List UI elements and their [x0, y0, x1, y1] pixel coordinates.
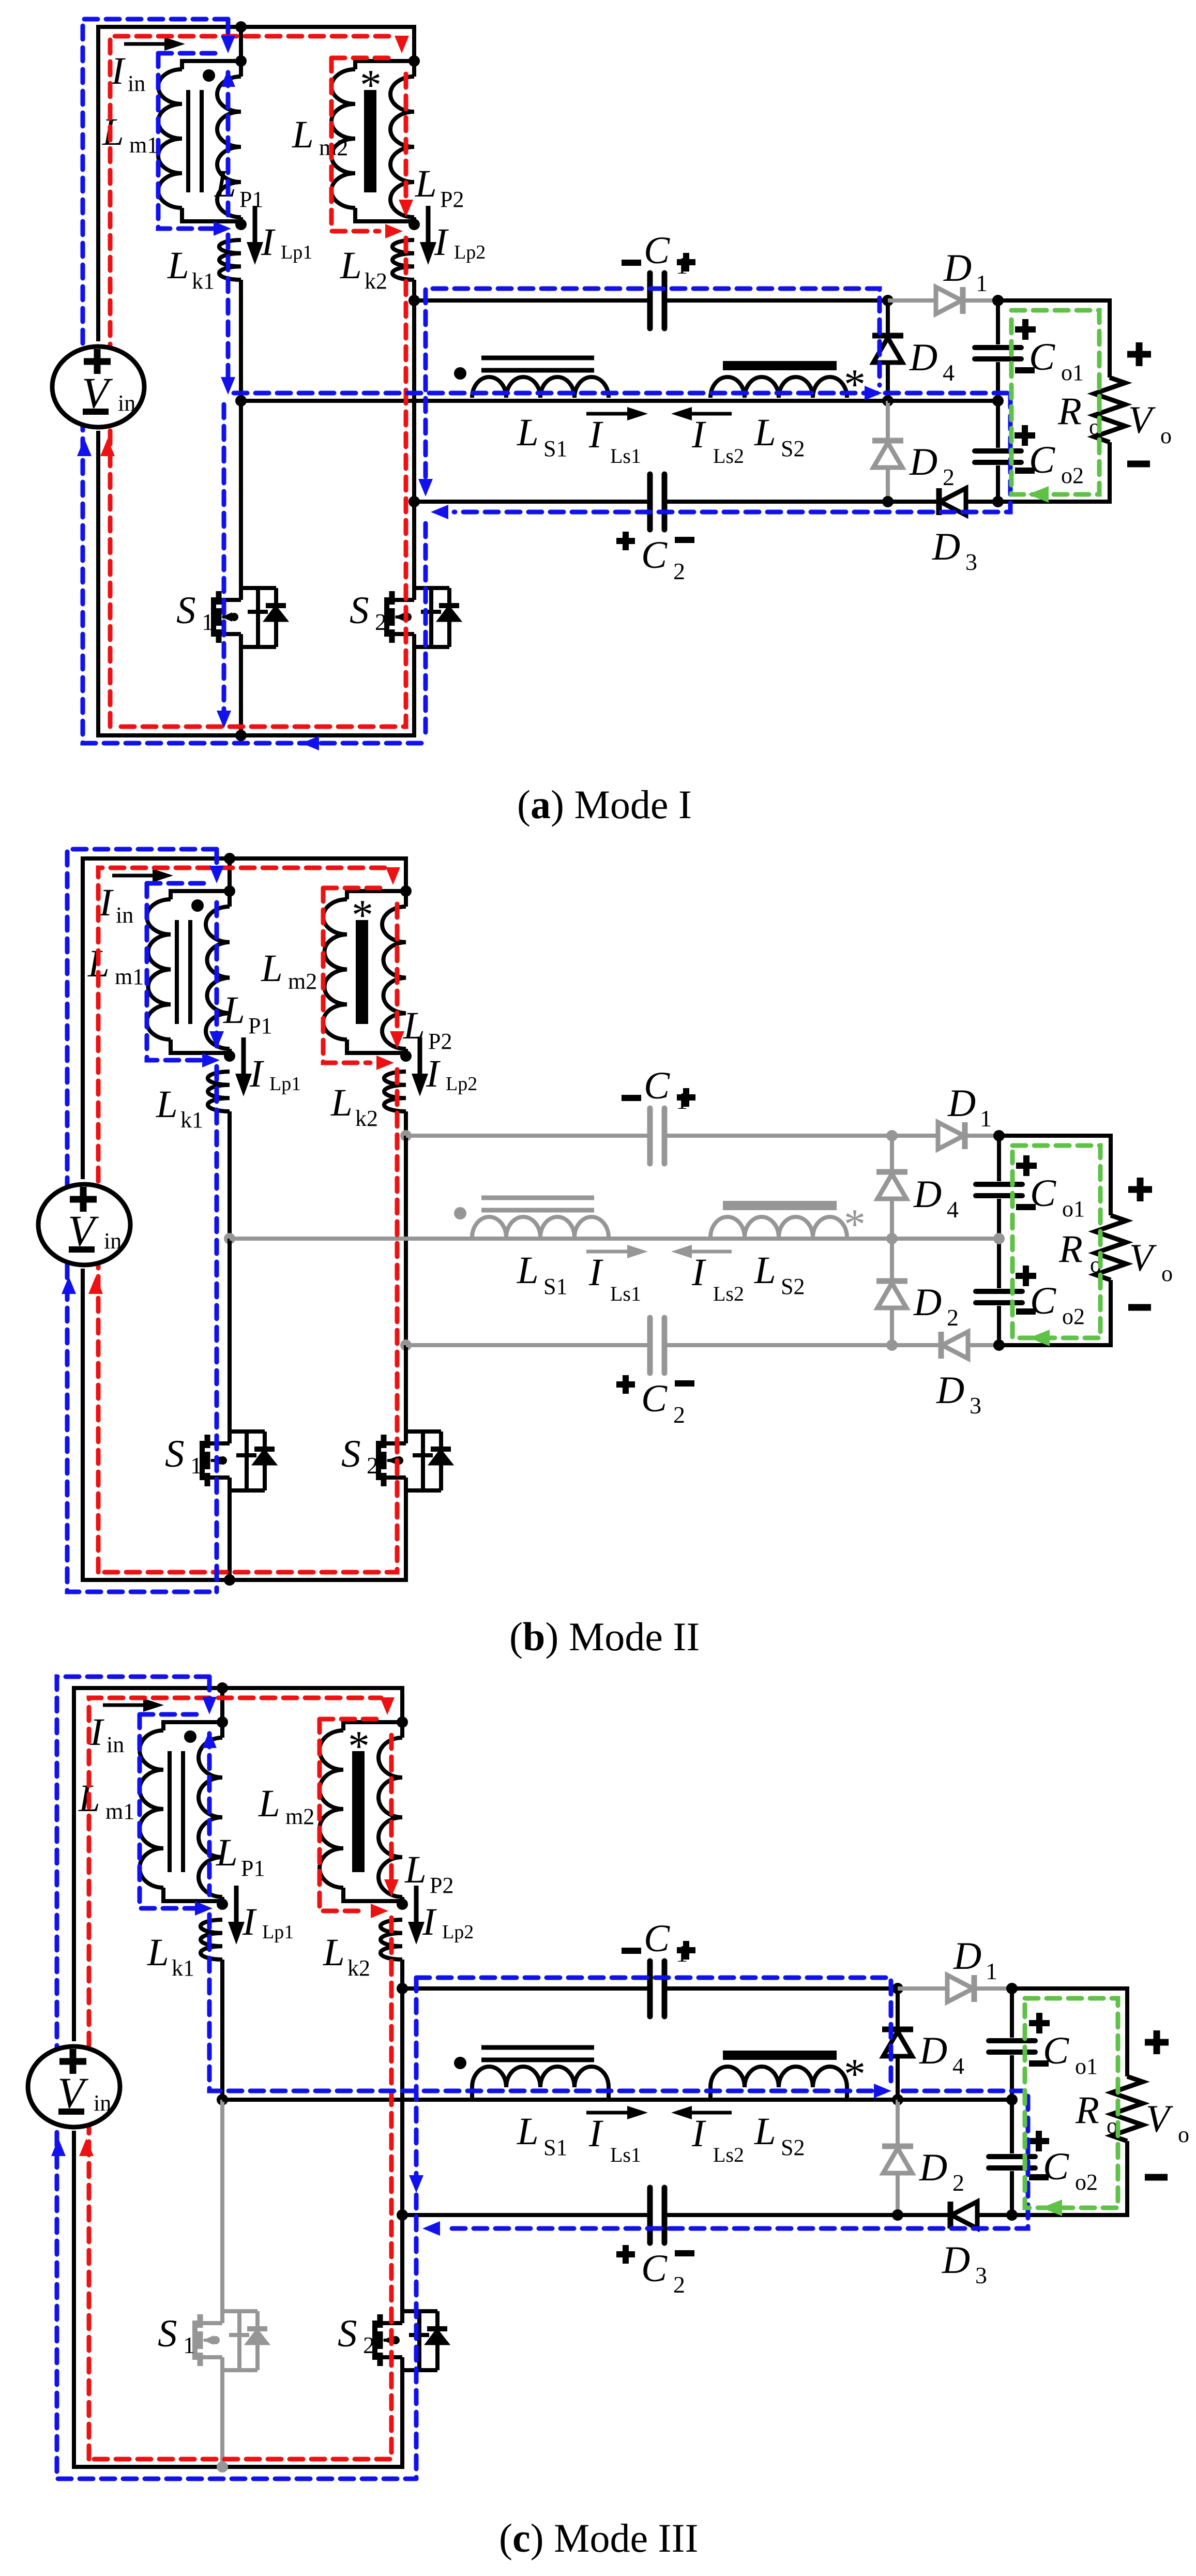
- blue arrow down into T1 node (c): [202, 1697, 217, 1714]
- wire D2 branch (c): [896, 2100, 900, 2215]
- diode D3 (b): [942, 1332, 968, 1359]
- label output plus (b): [1128, 1186, 1152, 1193]
- svg-text:I: I: [426, 1052, 441, 1095]
- diode D4 (a): [872, 333, 903, 339]
- green dashed output loop (b): [1012, 1146, 1100, 1338]
- capacitor C2 (c): [647, 2188, 653, 2243]
- green dashed output loop (c): [1025, 1998, 1118, 2208]
- wire D4 branch (a): [886, 300, 890, 401]
- arrow ILp1 (b): [241, 1037, 246, 1088]
- arrow ILs1 (a): [586, 412, 641, 416]
- wire Vin to bottom rail (b): [81, 1269, 85, 1580]
- inductor LS1 core lines (c): [481, 2045, 594, 2050]
- svg-text:L: L: [340, 244, 362, 287]
- red dashed loop outer (a): [110, 36, 396, 727]
- svg-text:I: I: [691, 1251, 706, 1294]
- svg-text:P2: P2: [428, 1029, 452, 1054]
- svg-text:Lp2: Lp2: [442, 1921, 474, 1943]
- svg-text:Ls2: Ls2: [713, 2143, 744, 2166]
- wire C1 rail (a): [414, 298, 650, 303]
- node T1 bottom (b): [224, 1050, 235, 1062]
- svg-text:o: o: [1160, 423, 1172, 448]
- svg-text:L: L: [214, 162, 236, 205]
- svg-text:1: 1: [190, 1452, 202, 1479]
- svg-text:*: *: [352, 891, 373, 939]
- blue arrow down into T1 node (b): [209, 866, 224, 883]
- arrow ILs1 (b): [586, 1250, 641, 1254]
- wire C2-rail node to S2 drain (a): [412, 502, 416, 588]
- node D2 bottom (b): [886, 1339, 898, 1351]
- inductor LS1 (b): [472, 1217, 609, 1238]
- wire D2 branch (a): [886, 401, 890, 502]
- label output minus (a): [1127, 461, 1150, 468]
- inductor LS1 polarity dot (c): [454, 2057, 466, 2069]
- node D4 mid-rail (b): [886, 1233, 898, 1244]
- svg-text:D: D: [943, 247, 972, 290]
- svg-text:o1: o1: [1062, 1196, 1085, 1222]
- svg-text:o2: o2: [1062, 1304, 1085, 1329]
- svg-text:S: S: [165, 1433, 185, 1475]
- svg-text:S1: S1: [543, 1274, 567, 1299]
- red dashed through LP2 (c): [389, 1735, 394, 1889]
- svg-text:I: I: [261, 221, 276, 264]
- svg-text:P1: P1: [239, 187, 263, 212]
- green arrow left (a): [1028, 486, 1049, 503]
- wire mid-rail node to S1 drain (b): [228, 1239, 232, 1432]
- node T1 top (b): [224, 885, 235, 897]
- red arrow down top (c): [380, 1697, 395, 1715]
- wire S1 source to bottom rail (a): [239, 647, 243, 735]
- transformer T2 primary winding Lm2 (c): [343, 1722, 402, 1730]
- svg-text:o: o: [1161, 1261, 1173, 1286]
- blue dashed through LP1 (a): [226, 72, 231, 215]
- wire C2-rail node to S2 drain (b): [404, 1345, 408, 1432]
- svg-text:2: 2: [673, 2271, 685, 2298]
- wire output loop with load (a): [998, 300, 1110, 378]
- node output top (b): [993, 1130, 1005, 1141]
- node top rail / T1 (a): [235, 21, 247, 33]
- svg-text:C: C: [1029, 439, 1055, 481]
- svg-text:S1: S1: [543, 436, 567, 461]
- red arrow down top (b): [386, 867, 400, 885]
- blue arrow left under C2 rail (a): [431, 505, 448, 519]
- blue arrow down into T1 node (a): [221, 36, 235, 53]
- svg-text:4: 4: [947, 1196, 959, 1223]
- diode D3 (a): [940, 488, 966, 515]
- svg-text:L: L: [216, 1831, 238, 1874]
- wire C1-rail node to C2-rail node (b): [404, 1136, 408, 1345]
- blue dashed mid rail right part (c): [446, 2091, 1028, 2228]
- svg-text:L: L: [754, 2110, 776, 2153]
- inductor Lk1 (c): [201, 1920, 222, 1960]
- svg-text:S: S: [341, 1433, 361, 1475]
- svg-text:L: L: [517, 1249, 539, 1292]
- wire C2 rail (c): [402, 2213, 650, 2217]
- svg-text:I: I: [99, 881, 114, 924]
- node output top (a): [992, 295, 1004, 306]
- node output top (c): [1006, 1983, 1018, 1994]
- capacitor Co1 (b): [976, 1182, 1022, 1187]
- green arrow left (b): [1029, 1330, 1050, 1346]
- blue dashed Lk1 branch to mid rail corner (c): [209, 1915, 885, 2091]
- svg-text:I: I: [249, 1052, 264, 1095]
- wire C1-rail node to C2-rail node (c): [400, 1989, 404, 2215]
- transformer T2 core bar (c): [352, 1751, 365, 1872]
- svg-text:1: 1: [202, 609, 214, 635]
- inductor LS1 polarity dot (a): [454, 367, 466, 380]
- wire C1 rail (b): [406, 1134, 650, 1138]
- svg-text:m2: m2: [288, 969, 317, 994]
- arrow ILs2 (a): [671, 407, 692, 420]
- svg-text:I: I: [242, 1901, 257, 1944]
- diode D2 (b): [876, 1278, 907, 1284]
- svg-text:I: I: [588, 413, 603, 456]
- transistor S2 (c): [372, 2321, 377, 2360]
- arrow ILp1 (a): [253, 206, 258, 257]
- node output mid (c): [1006, 2094, 1018, 2105]
- svg-text:D: D: [919, 2029, 947, 2072]
- wire bottom rail (b): [81, 1490, 406, 1580]
- transistor S1 (b): [200, 1441, 205, 1480]
- blue dashed top leg (a): [226, 19, 231, 39]
- svg-text:*: *: [360, 61, 382, 109]
- svg-text:Ls1: Ls1: [610, 444, 641, 468]
- wire input top rail (b): [83, 858, 406, 1179]
- label output plus (c): [1145, 2039, 1169, 2046]
- red arrow down top (a): [395, 36, 409, 53]
- svg-text:R: R: [1058, 1228, 1083, 1271]
- svg-text:P2: P2: [430, 1873, 453, 1898]
- svg-text:Ls2: Ls2: [713, 444, 744, 468]
- svg-text:D: D: [932, 525, 960, 568]
- inductor LS2 core bar (c): [723, 2051, 837, 2060]
- wire input top rail (a): [98, 27, 414, 341]
- transformer T1 polarity dot (a): [203, 69, 215, 82]
- svg-text:I: I: [434, 221, 449, 264]
- label C2 (c): [616, 2251, 635, 2257]
- blue dashed through LP1 (b): [215, 902, 219, 1047]
- node D4 mid-rail (c): [892, 2094, 903, 2105]
- wire Lk2 down to C1 rail (b): [404, 1111, 408, 1136]
- diode D2 (a): [872, 438, 903, 444]
- blue dashed output return (a): [454, 394, 1010, 512]
- wire Vin to bottom rail (c): [72, 2131, 76, 2467]
- svg-text:in: in: [94, 2090, 111, 2116]
- blue arrow up LP1 (a): [221, 69, 235, 87]
- svg-text:L: L: [261, 947, 283, 990]
- wire D3 segment (c): [898, 2213, 1012, 2217]
- node T1 top (c): [217, 1716, 228, 1728]
- node T2 top (b): [400, 885, 412, 897]
- wire output loop with load (c): [1012, 1989, 1127, 2076]
- wire S1 source to bottom rail (b): [228, 1490, 232, 1580]
- wire mid rail to output mid node (a): [888, 399, 998, 403]
- wire D1 branch (c): [898, 1986, 1012, 1991]
- blue dashed through LP1 (c): [207, 1734, 212, 1895]
- blue arrow left bottom (a): [301, 736, 319, 750]
- svg-text:I: I: [89, 1711, 104, 1754]
- wire mid rail to output mid node (b): [892, 1237, 999, 1241]
- wire C2 rail (b): [406, 1343, 650, 1347]
- svg-text:o1: o1: [1061, 360, 1084, 385]
- resistor Ro (b): [1095, 1215, 1126, 1280]
- node C1 rail (c): [397, 1983, 408, 1994]
- node bottom rail / S1 (b): [224, 1574, 235, 1586]
- voltage source Vin (b): [38, 1184, 130, 1265]
- capacitor C1 (a): [647, 273, 653, 328]
- svg-text:in: in: [128, 71, 145, 96]
- node C2 rail (b): [400, 1339, 412, 1351]
- capacitor Co1 (c): [989, 2038, 1035, 2043]
- node output bottom (a): [992, 496, 1004, 507]
- arrow ILp2 (a): [426, 206, 431, 257]
- transformer T2 core bar (b): [356, 920, 368, 1024]
- svg-text:Lp1: Lp1: [269, 1073, 301, 1095]
- transistor S1 (a): [211, 597, 216, 637]
- capacitor Co2 (a): [975, 448, 1021, 454]
- svg-text:L: L: [323, 1931, 345, 1974]
- red arrow right T2 bottom (c): [371, 1904, 388, 1918]
- transistor S2 (b): [376, 1441, 381, 1480]
- blue dashed top leg (b): [215, 849, 219, 869]
- capacitor C1 (c): [647, 1961, 653, 2016]
- svg-text:L: L: [415, 162, 437, 205]
- node T1 bottom (a): [235, 219, 247, 230]
- wire C1 rail (c): [402, 1986, 650, 1991]
- svg-text:Lp1: Lp1: [281, 242, 312, 263]
- svg-text:4: 4: [943, 359, 955, 386]
- svg-text:o1: o1: [1075, 2054, 1098, 2079]
- svg-text:C: C: [644, 229, 670, 272]
- blue dashed T1 rect (a): [158, 53, 222, 229]
- label C1 (b): [622, 1095, 641, 1101]
- inductor LS1 (a): [472, 377, 609, 398]
- wire mid rail with LS1 LS2 (a): [241, 399, 888, 403]
- svg-text:2: 2: [375, 609, 387, 635]
- svg-text:1: 1: [986, 1958, 997, 1984]
- blue arrow down S1 column (a): [217, 711, 231, 728]
- transformer T2 secondary winding Lp2 (a): [412, 61, 416, 77]
- diode D4 (b): [876, 1169, 907, 1175]
- transformer T1 secondary winding Lp1 (b): [228, 891, 232, 907]
- svg-text:2: 2: [363, 2332, 375, 2358]
- svg-text:S2: S2: [781, 436, 805, 461]
- svg-text:L: L: [517, 2110, 539, 2153]
- red dashed through LP2 (a): [404, 74, 408, 209]
- transformer T2 secondary winding Lp2 (c): [400, 1722, 404, 1738]
- transformer T1 polarity dot (b): [191, 899, 204, 912]
- svg-text:(c) Mode III: (c) Mode III: [499, 2515, 698, 2560]
- svg-text:2: 2: [943, 464, 955, 490]
- wire Lk1 to mid-rail node (a): [239, 280, 243, 401]
- blue arrow right mid rail (c): [874, 2084, 891, 2098]
- red arrow up near Vin (b): [88, 1276, 103, 1294]
- node T2 bottom (a): [408, 219, 420, 230]
- voltage source Vin (a): [52, 347, 144, 427]
- node C1 rail (b): [400, 1130, 412, 1141]
- svg-text:D: D: [919, 2146, 947, 2189]
- blue dashed mid rail (a): [234, 391, 1007, 396]
- wire bottom rail (c): [72, 2370, 402, 2467]
- blue dashed C1 loop (c): [416, 1978, 891, 2084]
- node C2 rail (c): [397, 2209, 408, 2221]
- red dashed loop T2 rect (c): [320, 1719, 365, 1911]
- wire T1 branch from top rail (c): [220, 1688, 224, 1722]
- svg-text:P1: P1: [248, 1013, 272, 1038]
- blue dashed C1 loop (a): [426, 289, 880, 477]
- svg-text:I: I: [691, 413, 706, 456]
- red dashed S2 column (c): [94, 1918, 391, 2459]
- svg-text:Ls1: Ls1: [610, 2143, 641, 2166]
- transformer T2 primary winding Lm2 (a): [355, 61, 414, 69]
- svg-text:L: L: [292, 113, 314, 156]
- node output bottom (b): [993, 1339, 1005, 1351]
- blue arrow right T1 bottom (c): [195, 1901, 213, 1916]
- svg-text:Ls2: Ls2: [713, 1282, 744, 1305]
- svg-text:3: 3: [970, 1392, 981, 1419]
- node T1 bottom (c): [217, 1899, 228, 1910]
- svg-text:1: 1: [183, 2332, 195, 2358]
- wire T1 branch from top rail (a): [239, 27, 243, 61]
- wire D2 branch (b): [890, 1239, 894, 1345]
- red arrow up near Vin (c): [79, 2138, 94, 2156]
- svg-text:*: *: [844, 1200, 866, 1248]
- blue dashed T1 rect (c): [140, 1714, 203, 1908]
- inductor LS2 (c): [710, 2067, 847, 2087]
- wire T1 branch from top rail (b): [228, 858, 232, 891]
- node T2 top (c): [397, 1716, 408, 1728]
- svg-text:in: in: [116, 902, 133, 928]
- diode D4 (c): [882, 2027, 913, 2032]
- diode D1 (c): [947, 1975, 973, 2002]
- red dashed loop outer (b): [98, 868, 387, 1572]
- svg-text:L: L: [330, 1081, 353, 1124]
- svg-text:I: I: [111, 50, 126, 93]
- svg-text:S2: S2: [781, 2135, 805, 2160]
- label Co2 (b): [1016, 1273, 1036, 1279]
- svg-text:Lp2: Lp2: [446, 1073, 477, 1095]
- wire C1-rail node to C2-rail node (a): [412, 300, 416, 502]
- node mid rail (c): [217, 2094, 228, 2105]
- svg-text:C: C: [1043, 2145, 1069, 2188]
- blue arrow down LP1 (b): [209, 1031, 224, 1049]
- node mid rail (a): [235, 395, 247, 406]
- wire input top rail (c): [74, 1688, 402, 2041]
- svg-text:k2: k2: [365, 268, 387, 294]
- red arrow up near Vin (a): [100, 439, 115, 456]
- wire output column (a): [996, 300, 1000, 344]
- arrow ILp1 (c): [234, 1886, 239, 1936]
- label Co1 (c): [1029, 2020, 1050, 2026]
- svg-text:*: *: [844, 360, 866, 409]
- svg-text:L: L: [517, 411, 539, 454]
- node bottom rail / S1 (a): [235, 730, 247, 741]
- svg-text:D: D: [942, 2239, 970, 2282]
- wire mid-rail node to S1 drain (c): [220, 2100, 224, 2311]
- wire Vin to bottom rail (a): [96, 431, 100, 735]
- svg-text:2: 2: [952, 2170, 964, 2196]
- blue arrow up near Vin (c): [51, 2138, 66, 2156]
- svg-text:*: *: [348, 1722, 370, 1770]
- blue dashed S1 column (a): [222, 404, 226, 720]
- svg-text:3: 3: [975, 2262, 987, 2288]
- svg-text:R: R: [1075, 2089, 1099, 2132]
- svg-text:C: C: [644, 1917, 670, 1960]
- wire C2 rail (a): [414, 500, 650, 504]
- svg-text:D: D: [953, 1935, 981, 1978]
- transistor S1 (c): [192, 2321, 198, 2360]
- svg-text:I: I: [588, 1251, 603, 1294]
- svg-text:m1: m1: [129, 132, 158, 158]
- node D2 bottom (a): [882, 496, 894, 507]
- voltage source Vin (c): [28, 2046, 120, 2127]
- transformer T1 secondary winding Lp1 (a): [239, 61, 243, 77]
- svg-text:I: I: [691, 2112, 706, 2155]
- blue dashed outer loop (a): [83, 19, 426, 743]
- inductor LS1 polarity dot (b): [454, 1207, 466, 1219]
- capacitor C1 (b): [647, 1108, 653, 1164]
- blue dashed outer loop (b): [67, 849, 217, 1592]
- arrow ILs1 (c): [586, 2111, 641, 2115]
- capacitor C2 (a): [647, 474, 653, 530]
- transformer T1 primary winding Lm1 (b): [171, 891, 230, 899]
- node D2 bottom (c): [892, 2209, 903, 2221]
- node top rail / T1 (b): [224, 853, 235, 864]
- inductor LS1 core lines (b): [481, 1196, 594, 1200]
- red arrow right T2 bottom (a): [385, 224, 403, 238]
- wire mid rail with LS1 LS2 (b): [230, 1237, 892, 1241]
- arrow ILp2 (b): [418, 1037, 422, 1088]
- svg-text:L: L: [156, 1083, 178, 1126]
- svg-text:L: L: [754, 1249, 776, 1292]
- svg-text:k2: k2: [347, 1955, 370, 1981]
- wire Lk2 down to C1 rail (c): [400, 1960, 404, 1989]
- svg-text:m2: m2: [285, 1804, 314, 1829]
- svg-text:Lp2: Lp2: [454, 242, 486, 263]
- svg-text:3: 3: [965, 549, 977, 575]
- svg-text:1: 1: [980, 1105, 992, 1132]
- arrow Iin (c): [103, 1704, 155, 1707]
- red dashed loop T2 rect (b): [323, 888, 370, 1063]
- resistor Ro (a): [1094, 378, 1125, 442]
- inductor LS2 (a): [710, 377, 847, 398]
- svg-text:2: 2: [673, 558, 685, 584]
- blue dashed outer loop (c): [57, 1677, 416, 2479]
- red dashed S2 column (b): [103, 1069, 397, 1572]
- svg-text:S: S: [338, 2312, 357, 2355]
- wire output loop with load (b): [999, 1136, 1111, 1215]
- transformer T1 core lines (c): [168, 1751, 172, 1872]
- svg-text:D: D: [913, 1281, 942, 1324]
- inductor LS2 core bar (b): [723, 1201, 837, 1210]
- svg-text:C: C: [1030, 1279, 1056, 1322]
- blue dashed S2 column (c): [414, 1978, 419, 2479]
- svg-text:o2: o2: [1061, 463, 1084, 488]
- node T1 top (a): [235, 55, 247, 67]
- svg-text:k1: k1: [192, 268, 215, 294]
- red arrow down LP2 (a): [399, 200, 413, 217]
- blue dashed S2 column (a): [423, 523, 428, 738]
- diode D3 (c): [951, 2202, 977, 2228]
- label C2 (b): [616, 1381, 635, 1388]
- inductor Lk2 (a): [392, 240, 414, 280]
- transformer T2 core bar (a): [364, 90, 376, 192]
- arrow Iin (a): [124, 42, 176, 46]
- svg-text:I: I: [588, 2112, 603, 2155]
- svg-text:C: C: [641, 534, 668, 577]
- label Co2 (a): [1015, 432, 1035, 439]
- svg-text:P1: P1: [241, 1856, 265, 1881]
